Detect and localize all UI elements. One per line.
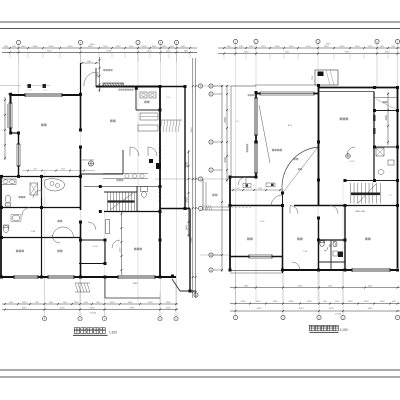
svg-text:5900: 5900 bbox=[345, 52, 351, 54]
left plan bottom axis bubble E bbox=[174, 317, 178, 321]
right plan top axis bubble 4 bbox=[375, 39, 379, 43]
svg-text:3000: 3000 bbox=[49, 46, 55, 48]
left plan entry canopy hatched bar bbox=[103, 83, 124, 87]
right plan upper bathroom fixtures bbox=[376, 148, 394, 174]
left plan bottom dimension text bbox=[9, 302, 171, 315]
svg-text:1800: 1800 bbox=[186, 162, 189, 168]
svg-text:1800: 1800 bbox=[152, 46, 158, 48]
right plan top dimension text bbox=[227, 44, 395, 54]
left plan top axis bubble 5 bbox=[174, 40, 178, 44]
svg-text:2400: 2400 bbox=[33, 46, 39, 48]
svg-text:7540: 7540 bbox=[90, 44, 96, 46]
left plan top axis bubble 4 bbox=[158, 40, 162, 44]
svg-text:1540: 1540 bbox=[241, 301, 247, 303]
right plan void arc bbox=[282, 147, 318, 193]
svg-text:2100: 2100 bbox=[306, 46, 312, 48]
right plan bottom axis bubble 2 bbox=[281, 315, 285, 319]
svg-text:1000: 1000 bbox=[142, 46, 148, 48]
svg-text:2580: 2580 bbox=[289, 301, 295, 303]
left plan top axis bubble 2 bbox=[78, 40, 82, 44]
svg-text:5790: 5790 bbox=[148, 302, 154, 304]
left plan porch south wall bbox=[180, 290, 196, 292]
svg-text:3080+240: 3080+240 bbox=[355, 211, 366, 213]
left plan bottom dimension line 2 bbox=[2, 309, 178, 311]
svg-text:2400: 2400 bbox=[224, 157, 227, 163]
svg-text:2130: 2130 bbox=[329, 308, 335, 310]
right plan roof overhang line bbox=[255, 84, 318, 86]
svg-text:7540: 7540 bbox=[326, 44, 332, 46]
left plan east lower wall bbox=[160, 208, 190, 210]
right plan bathroom walls bbox=[319, 239, 346, 241]
right plan bottom dimension line 1 bbox=[230, 303, 400, 305]
svg-text:9.000(±0.000): 9.000(±0.000) bbox=[80, 160, 94, 162]
left plan west wall window upper bbox=[9, 103, 13, 128]
left plan west rooms east wall bbox=[41, 177, 43, 278]
left plan upper wall bbox=[96, 86, 160, 88]
right plan middle wall bbox=[230, 205, 283, 207]
svg-text:1940: 1940 bbox=[88, 46, 94, 48]
svg-text:2.100: 2.100 bbox=[92, 246, 98, 248]
svg-text:1500: 1500 bbox=[289, 46, 295, 48]
left plan entry dimension column bbox=[97, 57, 101, 92]
left plan title 一层平面图 bbox=[73, 328, 117, 336]
left plan bottom axis bubble C bbox=[102, 317, 106, 321]
left plan room labels bbox=[16, 69, 171, 285]
svg-text:1230: 1230 bbox=[335, 301, 341, 303]
svg-text:4430: 4430 bbox=[368, 308, 374, 310]
left plan porch outline bbox=[104, 277, 106, 298]
right plan center-east wall bbox=[318, 85, 320, 206]
left plan entry steps hatch bbox=[75, 283, 90, 292]
svg-text:3530: 3530 bbox=[299, 308, 305, 310]
left plan top dimension line 2 bbox=[2, 51, 197, 53]
right plan terrace edge bbox=[230, 86, 232, 177]
left plan powder door leaf bbox=[106, 220, 110, 234]
svg-text:1200: 1200 bbox=[261, 46, 267, 48]
right plan bottom wall bbox=[283, 269, 398, 271]
svg-text:1:100: 1:100 bbox=[109, 331, 117, 335]
left plan left dimension column bbox=[4, 97, 6, 160]
right plan dashed line bbox=[228, 207, 252, 209]
left plan stair walls bbox=[104, 191, 137, 193]
svg-text:1540: 1540 bbox=[380, 301, 386, 303]
right plan bottom axis bubble 1 bbox=[233, 315, 237, 319]
svg-text:3430: 3430 bbox=[224, 117, 227, 123]
right plan bottom axis bubble 4 bbox=[341, 315, 345, 319]
left plan west wall jog bbox=[11, 132, 19, 134]
right plan bottom dimension line 2 bbox=[230, 310, 400, 312]
left plan entry vestibule wall bbox=[95, 68, 97, 87]
svg-text:2400: 2400 bbox=[364, 301, 370, 303]
right plan chimney bump bbox=[312, 70, 338, 85]
left plan right axis bubbles bbox=[197, 85, 199, 87]
left plan bottom ticks bbox=[4, 303, 177, 311]
left plan laundry counter circles bbox=[103, 174, 148, 179]
left plan east spine wall bbox=[159, 87, 161, 278]
left plan living-bath wall bbox=[0, 176, 81, 178]
left plan second bath toilet bbox=[3, 225, 8, 232]
svg-text:1500: 1500 bbox=[110, 302, 116, 304]
svg-text:1230: 1230 bbox=[116, 46, 122, 48]
svg-text:1430: 1430 bbox=[348, 301, 354, 303]
left plan fireplace columns bbox=[149, 159, 153, 163]
svg-text:1430: 1430 bbox=[162, 46, 168, 48]
right plan step wall bbox=[230, 176, 256, 178]
right plan lower west wall bbox=[229, 177, 231, 270]
left plan east outer wall bbox=[184, 87, 186, 209]
svg-text:1800: 1800 bbox=[68, 46, 74, 48]
left plan kitchen counter bbox=[44, 179, 64, 191]
left plan west window sill bbox=[7, 104, 9, 128]
svg-text:5790: 5790 bbox=[130, 308, 136, 310]
svg-text:900: 900 bbox=[236, 188, 239, 190]
right plan right dimension column bbox=[385, 92, 389, 145]
sheet frame top line 2 bbox=[0, 28, 400, 30]
left plan east spine wall hatch bbox=[159, 146, 161, 201]
left plan kitchen appliances bbox=[138, 92, 158, 131]
left plan bathroom south wall bbox=[1, 207, 81, 209]
right plan south balcony railing bbox=[230, 270, 283, 272]
svg-text:4030: 4030 bbox=[191, 127, 193, 133]
left plan top axis bubble 3 bbox=[136, 40, 140, 44]
left plan kitchen partition bbox=[135, 88, 137, 110]
left plan toilet bbox=[5, 195, 11, 206]
svg-text:6.200: 6.200 bbox=[350, 161, 355, 163]
svg-text:1:100: 1:100 bbox=[340, 328, 348, 332]
svg-text:15040: 15040 bbox=[90, 313, 97, 315]
right plan balcony bbox=[203, 179, 230, 210]
sheet frame bottom line 1 bbox=[0, 369, 400, 371]
left plan stair treads bbox=[108, 193, 135, 212]
right plan bottom ticks bbox=[235, 303, 399, 313]
left plan outer wall top bbox=[11, 94, 81, 96]
svg-text:1800: 1800 bbox=[385, 115, 388, 121]
right plan bedroom south wall bbox=[230, 256, 283, 258]
svg-text:1540: 1540 bbox=[186, 225, 189, 231]
svg-text:C-3: C-3 bbox=[388, 195, 391, 197]
left plan double swing door bbox=[53, 227, 74, 238]
svg-text:1280: 1280 bbox=[74, 302, 80, 304]
right plan grid centerlines bbox=[200, 44, 398, 315]
right plan top axis bubble 2 bbox=[254, 39, 258, 43]
left plan bottom dimension line 1 bbox=[2, 303, 178, 305]
left plan outer wall west lower bbox=[18, 133, 20, 177]
left plan structural columns bbox=[0, 85, 192, 293]
svg-text:2430: 2430 bbox=[128, 302, 134, 304]
svg-text:1540: 1540 bbox=[21, 46, 27, 48]
left plan west outer wall lower bbox=[0, 177, 2, 278]
right plan upper-right wall bbox=[318, 87, 398, 89]
left plan corridor wall bbox=[84, 185, 160, 187]
right plan corridor dimension row bbox=[230, 188, 283, 191]
left plan entry door arc bbox=[84, 72, 96, 87]
left plan west wall window lower bbox=[17, 144, 21, 166]
svg-text:1540: 1540 bbox=[324, 46, 330, 48]
left plan second bath sink bbox=[12, 215, 20, 221]
left plan grid centerlines bbox=[0, 45, 199, 317]
svg-text:1800: 1800 bbox=[340, 46, 346, 48]
svg-text:1540: 1540 bbox=[97, 72, 100, 78]
left plan bottom wall windows bbox=[14, 275, 38, 279]
svg-text:1230: 1230 bbox=[355, 46, 361, 48]
extra annotation texts bbox=[235, 121, 391, 253]
right plan interior wall x318 bbox=[318, 218, 320, 270]
left plan bottom axis bubble D bbox=[158, 317, 162, 321]
left plan right dimension column bbox=[186, 58, 197, 298]
right plan top axis bubble 3 bbox=[316, 39, 320, 43]
left plan top axis bubble 1 bbox=[16, 40, 20, 44]
left plan powder room bbox=[137, 186, 148, 211]
svg-text:4030: 4030 bbox=[257, 308, 263, 310]
right plan interior diagonal bbox=[259, 105, 270, 163]
svg-text:2400: 2400 bbox=[275, 46, 281, 48]
left plan bottom axis bubble A bbox=[42, 317, 46, 321]
left plan dining south wall bbox=[81, 173, 124, 175]
left plan dining partition wall bbox=[122, 150, 124, 174]
left plan garage dimension column bbox=[106, 212, 123, 278]
right plan top ticks bbox=[223, 47, 399, 59]
right plan upper bathroom walls bbox=[373, 92, 375, 148]
top dimension ticks row1 bbox=[9, 47, 191, 58]
svg-text:1200: 1200 bbox=[129, 46, 135, 48]
right plan left dimension column bbox=[221, 85, 228, 272]
svg-text:1200: 1200 bbox=[22, 302, 28, 304]
right plan top axis bubble 5 bbox=[395, 39, 399, 43]
right plan top axis bubble 1 bbox=[233, 39, 237, 43]
left plan top dimension line 1 bbox=[2, 47, 197, 49]
right plan lower dimension row bbox=[230, 285, 400, 288]
right plan lower bathroom fixtures bbox=[320, 241, 344, 258]
right plan wall stub to balcony bbox=[282, 257, 284, 274]
svg-text:1540: 1540 bbox=[249, 46, 255, 48]
right plan bottom axis bubble 5 bbox=[395, 315, 399, 319]
svg-text:6230: 6230 bbox=[285, 52, 291, 54]
svg-text:C-6: C-6 bbox=[235, 121, 238, 123]
right plan bottom dimension text bbox=[241, 301, 397, 315]
svg-text:240: 240 bbox=[33, 169, 36, 171]
svg-text:4030: 4030 bbox=[22, 308, 28, 310]
svg-text:2140: 2140 bbox=[61, 169, 65, 171]
svg-text:2.4M: 2.4M bbox=[31, 231, 36, 233]
svg-text:5790: 5790 bbox=[107, 51, 113, 53]
right plan east outer wall bbox=[397, 88, 399, 269]
svg-text:2140: 2140 bbox=[258, 188, 262, 190]
svg-text:1540: 1540 bbox=[133, 283, 139, 285]
left plan interior dimension row bbox=[22, 169, 95, 172]
right plan interior wall x282 bbox=[282, 206, 284, 271]
svg-text:2.4M: 2.4M bbox=[303, 251, 308, 253]
right plan title 二层平面图 bbox=[309, 325, 347, 332]
svg-text:1540: 1540 bbox=[181, 46, 187, 48]
svg-text:2680: 2680 bbox=[244, 52, 250, 54]
left plan shower bbox=[30, 183, 38, 195]
right plan wall below arc bbox=[282, 193, 284, 206]
svg-text:1800: 1800 bbox=[60, 308, 66, 310]
left plan top wall window bbox=[25, 93, 62, 97]
svg-text:1200: 1200 bbox=[368, 46, 374, 48]
left plan wall-end arrow bbox=[8, 93, 12, 96]
sheet frame top line 1 bbox=[0, 21, 400, 23]
right plan elevation marker bbox=[346, 154, 351, 159]
svg-text:5.800: 5.800 bbox=[260, 221, 265, 223]
left plan bottom axis bubble B bbox=[78, 317, 82, 321]
left plan porch corner diagonal bbox=[172, 279, 180, 291]
right plan left axis bubbles bbox=[209, 84, 213, 88]
right plan bottom axis bubble 3 bbox=[317, 315, 321, 319]
left plan center spine wall bbox=[80, 63, 82, 95]
svg-text:9240: 9240 bbox=[191, 237, 193, 243]
left plan bottom wall bbox=[1, 276, 176, 278]
left plan ramp hatch bbox=[160, 120, 182, 132]
right plan structural columns bbox=[229, 84, 400, 272]
right plan annotations bbox=[246, 144, 365, 213]
svg-text:2430: 2430 bbox=[90, 308, 96, 310]
svg-text:1800: 1800 bbox=[273, 301, 279, 303]
right plan top dimension line 2 bbox=[218, 53, 400, 55]
top dimension text bbox=[4, 44, 188, 52]
left plan interior door arcs bbox=[22, 147, 157, 248]
svg-text:2100: 2100 bbox=[103, 46, 109, 48]
right plan corridor niche fixtures bbox=[243, 184, 251, 188]
right plan stair room walls bbox=[345, 180, 398, 182]
svg-text:7540: 7540 bbox=[47, 51, 53, 53]
right plan west wall with window bbox=[255, 92, 257, 177]
right plan door arcs bbox=[238, 147, 355, 270]
svg-text:17540: 17540 bbox=[335, 314, 342, 316]
right plan top dimension line 1 bbox=[218, 47, 400, 49]
svg-text:1540: 1540 bbox=[166, 51, 172, 53]
left plan storage wall bbox=[1, 237, 81, 239]
right plan room labels bbox=[212, 94, 387, 246]
svg-text:1530: 1530 bbox=[166, 308, 172, 310]
left plan small room walls bbox=[81, 239, 106, 241]
right plan lower bathroom divider bbox=[330, 240, 332, 270]
svg-text:2040: 2040 bbox=[385, 52, 391, 54]
svg-text:1430: 1430 bbox=[166, 302, 172, 304]
sheet frame bottom line 2 bbox=[0, 376, 400, 378]
svg-text:2430: 2430 bbox=[186, 197, 189, 203]
svg-text:2230: 2230 bbox=[147, 51, 153, 53]
svg-text:1500: 1500 bbox=[307, 301, 313, 303]
right plan stair treads bbox=[350, 183, 380, 204]
svg-text:2100: 2100 bbox=[120, 247, 122, 253]
left plan elevation marker bbox=[80, 160, 94, 167]
right plan top wall window band bbox=[256, 93, 318, 95]
svg-text:2400: 2400 bbox=[256, 301, 262, 303]
left plan bathroom vanity bbox=[2, 179, 17, 185]
left plan outer wall west upper bbox=[10, 93, 12, 133]
